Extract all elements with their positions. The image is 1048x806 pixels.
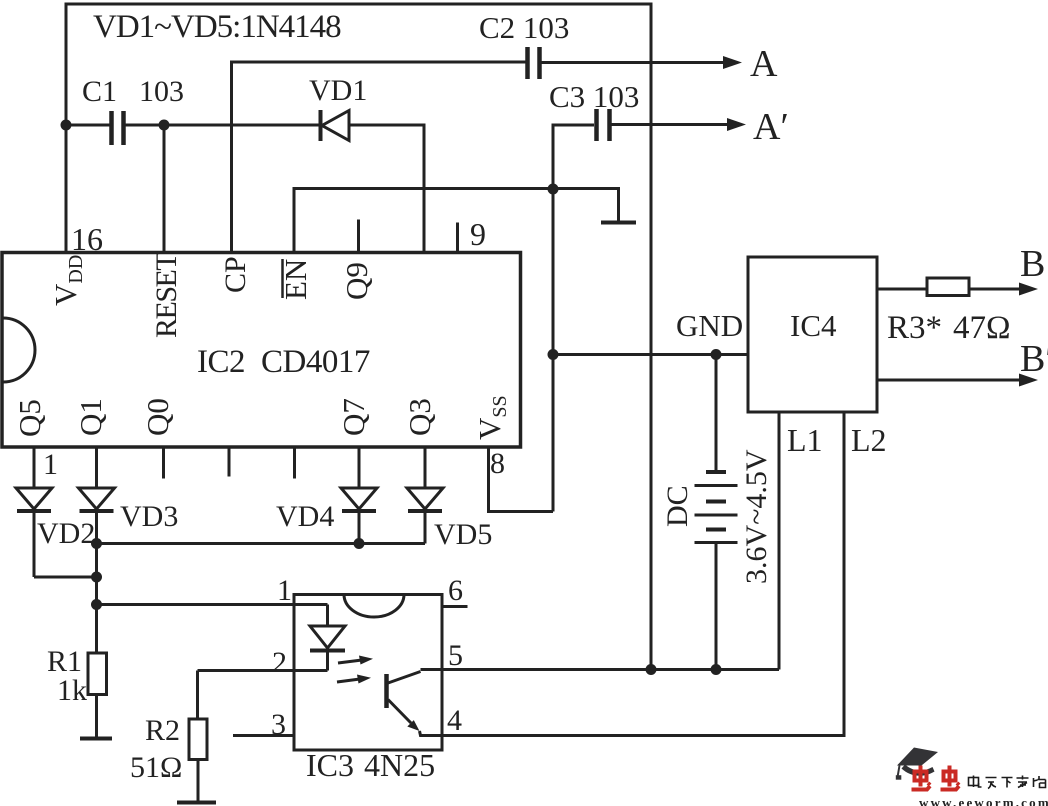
wire R2 top bbox=[196, 671, 199, 720]
ic IC2 CD4017 box bbox=[2, 253, 521, 448]
watermark text dianzi xiazaizhan bbox=[969, 776, 1046, 789]
svg-text:VSS: VSS bbox=[472, 395, 511, 440]
svg-text:IC3: IC3 bbox=[306, 747, 354, 783]
wire VD2 bus bbox=[34, 576, 97, 579]
svg-text:A′: A′ bbox=[753, 106, 789, 148]
node rail VDD junction bbox=[646, 664, 657, 675]
node pin1 junction bbox=[91, 599, 102, 610]
wire CP to C2 bbox=[232, 62, 528, 253]
ic IC4 box bbox=[748, 257, 877, 412]
wire to IC3 pin1 bbox=[97, 603, 328, 606]
wire R1 bottom bbox=[95, 695, 98, 739]
ground R1 bbox=[80, 737, 112, 741]
svg-text:9: 9 bbox=[470, 216, 486, 252]
ground near C3 bbox=[601, 221, 636, 225]
svg-text:Q3: Q3 bbox=[402, 398, 437, 436]
svg-text:VDD: VDD bbox=[48, 255, 87, 306]
node RESET junction bbox=[159, 120, 170, 131]
ground R2 bbox=[177, 801, 216, 805]
svg-text:EN: EN bbox=[278, 259, 313, 300]
transistor IC3 emitter bbox=[388, 700, 420, 732]
diode VD2 bbox=[16, 488, 52, 511]
diode VD1 bbox=[321, 110, 350, 141]
pin stub b bbox=[293, 447, 296, 479]
svg-text:1k: 1k bbox=[57, 674, 87, 707]
node EN-C3 junction bbox=[548, 184, 559, 195]
svg-text:4N25: 4N25 bbox=[364, 747, 435, 783]
svg-text:GND: GND bbox=[676, 308, 743, 343]
svg-text:51Ω: 51Ω bbox=[130, 751, 182, 784]
svg-text:VD4: VD4 bbox=[276, 500, 334, 533]
svg-text:8: 8 bbox=[490, 447, 505, 480]
wire RESET pin bbox=[163, 125, 166, 253]
svg-text:1: 1 bbox=[43, 448, 58, 481]
wire C3 left leg bbox=[553, 125, 594, 512]
pin Q3 lead bbox=[424, 447, 427, 488]
svg-text:B′: B′ bbox=[1020, 338, 1048, 380]
svg-text:VD2: VD2 bbox=[37, 517, 95, 550]
transistor IC3 collector bbox=[388, 672, 421, 684]
node bus VD3 junction bbox=[91, 538, 102, 549]
node GND left junction bbox=[548, 349, 559, 360]
wire C2 to A bbox=[540, 61, 727, 64]
light arrow 1 bbox=[338, 656, 373, 665]
pin Q7 lead bbox=[358, 447, 361, 488]
watermark chongchong char 2 bbox=[941, 766, 960, 790]
svg-text:Q9: Q9 bbox=[339, 262, 374, 300]
svg-text:2: 2 bbox=[272, 646, 287, 679]
svg-text:VD1~VD5:1N4148: VD1~VD5:1N4148 bbox=[93, 9, 341, 45]
pin Q5 lead bbox=[33, 447, 36, 488]
pin stub a bbox=[228, 447, 231, 477]
svg-text:C3 103: C3 103 bbox=[549, 79, 639, 114]
svg-text:VD1: VD1 bbox=[309, 74, 367, 107]
ic IC3 4N25 box bbox=[294, 595, 442, 751]
svg-text:103: 103 bbox=[139, 75, 184, 108]
svg-text:5: 5 bbox=[448, 639, 463, 672]
led IC3 cathode bbox=[326, 651, 329, 671]
diode VD4 bbox=[341, 488, 377, 511]
svg-text:IC4: IC4 bbox=[790, 308, 837, 343]
led IC3 anode bbox=[326, 605, 329, 627]
svg-text:6: 6 bbox=[448, 574, 463, 607]
wire GND line bbox=[553, 353, 748, 356]
wire VDD to C1 bbox=[66, 124, 111, 127]
wire VD5 down bbox=[424, 511, 427, 544]
wire IC4 to B' bbox=[877, 379, 1022, 382]
resistor R1 bbox=[88, 653, 107, 695]
wire EN net bbox=[294, 189, 619, 254]
wire IC4 to R3 bbox=[877, 288, 927, 291]
wire VD4 down bbox=[358, 511, 361, 544]
wire C3 to A' bbox=[610, 123, 731, 126]
capacitor C2 bbox=[528, 47, 540, 79]
wire R2 bottom bbox=[197, 760, 200, 803]
svg-text:3: 3 bbox=[271, 708, 286, 741]
resistor R2 bbox=[189, 719, 207, 760]
svg-text:IC2: IC2 bbox=[197, 344, 245, 380]
svg-text:4: 4 bbox=[447, 704, 462, 737]
node VD2 junction bbox=[91, 572, 102, 583]
pin IC3 pin6 stub bbox=[442, 605, 468, 608]
wire VD2 down bbox=[33, 511, 36, 577]
svg-text:A: A bbox=[750, 43, 778, 85]
battery DC leads bbox=[715, 355, 718, 670]
svg-text:R2: R2 bbox=[145, 714, 180, 747]
svg-text:CP: CP bbox=[219, 256, 252, 293]
diode VD5 bbox=[407, 488, 443, 511]
diode VD3 bbox=[79, 488, 115, 511]
svg-text:Q5: Q5 bbox=[12, 399, 47, 437]
arrow B bbox=[1019, 283, 1038, 296]
pin Q1 lead bbox=[95, 447, 98, 488]
arrow A' bbox=[727, 118, 746, 131]
svg-text:VD5: VD5 bbox=[434, 518, 492, 551]
wire VDD right rail bbox=[650, 3, 653, 672]
svg-text:Q1: Q1 bbox=[73, 398, 108, 436]
svg-text:CD4017: CD4017 bbox=[261, 344, 370, 380]
wire IC3 pin2 bbox=[198, 669, 328, 672]
pin 9 stub bbox=[456, 223, 459, 254]
wire EN overline bbox=[281, 259, 284, 298]
ic IC3 notch bbox=[344, 595, 404, 618]
led IC3 diode bbox=[310, 626, 345, 651]
wire diode bus bbox=[97, 542, 426, 545]
arrow A bbox=[723, 56, 742, 69]
wire pin5 rail bbox=[421, 412, 780, 670]
wire VDD top rail bbox=[65, 3, 652, 6]
node rail battery junction bbox=[711, 664, 722, 675]
pin Q0 stub bbox=[162, 447, 165, 479]
svg-text:VD3: VD3 bbox=[120, 500, 178, 533]
node VDD-C1 junction bbox=[61, 120, 72, 131]
transistor IC3 base bbox=[384, 674, 389, 708]
node bus VD4 junction bbox=[354, 538, 365, 549]
wire Vss elbow bbox=[489, 447, 554, 512]
svg-text:3.6V~4.5V: 3.6V~4.5V bbox=[740, 449, 773, 584]
svg-text:47Ω: 47Ω bbox=[953, 310, 1011, 346]
light arrow 2 bbox=[337, 675, 371, 684]
wire IC3 pin3 bbox=[233, 734, 294, 737]
svg-text:L2: L2 bbox=[851, 422, 887, 458]
wire R3 to B bbox=[969, 288, 1022, 291]
svg-text:16: 16 bbox=[71, 221, 103, 257]
svg-text:C2 103: C2 103 bbox=[479, 10, 569, 45]
arrow B' bbox=[1019, 374, 1038, 387]
capacitor C3 bbox=[597, 109, 610, 141]
svg-text:www.eeworm.com: www.eeworm.com bbox=[919, 795, 1048, 806]
svg-text:Q0: Q0 bbox=[140, 398, 175, 436]
svg-text:DC: DC bbox=[661, 485, 694, 527]
ic IC2 notch bbox=[3, 318, 35, 382]
watermark graduation cap bbox=[896, 748, 938, 780]
svg-text:L1: L1 bbox=[787, 422, 823, 458]
svg-text:R3*: R3* bbox=[887, 310, 942, 346]
pin Q9 stub bbox=[357, 220, 360, 254]
wire VD1 to pin bbox=[349, 125, 424, 253]
wire C1 to VD1 bbox=[124, 124, 321, 127]
wire VDD left rail bbox=[65, 3, 68, 254]
battery DC plates bbox=[695, 472, 738, 543]
svg-text:Q7: Q7 bbox=[336, 398, 371, 436]
watermark chongchong char 1 bbox=[912, 766, 931, 790]
wire VD3 down to R1 bbox=[95, 511, 98, 653]
capacitor C1 bbox=[112, 111, 124, 145]
svg-text:RESET: RESET bbox=[150, 253, 183, 338]
node GND battery junction bbox=[711, 349, 722, 360]
svg-text:1: 1 bbox=[277, 574, 292, 607]
svg-text:C1: C1 bbox=[82, 75, 117, 108]
svg-text:B: B bbox=[1020, 243, 1045, 285]
wire pin4 rail bbox=[420, 412, 845, 736]
resistor R3 bbox=[927, 278, 969, 296]
